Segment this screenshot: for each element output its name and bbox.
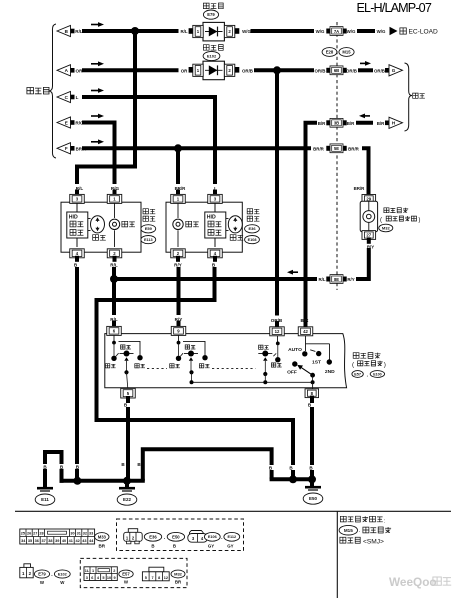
svg-text:L: L [76, 95, 79, 100]
oval E79 [34, 570, 49, 578]
dimmer switch group 3 [277, 336, 279, 343]
wire R/L vertical [77, 31, 135, 182]
svg-text:OR: OR [76, 68, 84, 73]
oval E59 [141, 225, 156, 233]
connector M32 grid [149, 567, 164, 572]
wire B from pin8 [310, 398, 314, 401]
label 下页 [413, 93, 418, 98]
svg-text:E57: E57 [122, 572, 130, 577]
node junction OR/B [273, 66, 281, 74]
label 远光 [186, 221, 192, 227]
label 超车 [199, 364, 203, 368]
svg-text:R/G: R/G [111, 186, 120, 191]
svg-text:2ND: 2ND [325, 369, 335, 375]
connector triangle B [57, 25, 71, 36]
low beam projector RH [88, 218, 91, 220]
svg-text:M33: M33 [98, 534, 107, 539]
wire OR/B [360, 68, 371, 72]
diode E79 [203, 22, 224, 41]
svg-text:5: 5 [145, 576, 147, 580]
diode E79 connector oval [203, 10, 218, 19]
pin 1 [189, 67, 194, 73]
svg-text:8: 8 [158, 576, 160, 580]
svg-text:B/R: B/R [318, 121, 326, 126]
oval M32 [379, 224, 393, 232]
svg-text:OR/B: OR/B [374, 68, 385, 73]
HID left headlamp E36 [166, 202, 242, 252]
svg-text:·: · [359, 529, 361, 535]
svg-text:BR/R: BR/R [348, 146, 360, 151]
svg-text:37: 37 [41, 539, 45, 543]
pin 1 [107, 194, 122, 203]
svg-text:R/Y: R/Y [175, 317, 183, 322]
pin 3 [70, 194, 85, 203]
arrow to EC-LOAD [390, 27, 398, 35]
pin 1 [189, 28, 194, 34]
connector triangle H to next page [385, 121, 389, 126]
svg-text:6B: 6B [334, 68, 339, 73]
svg-text:EL-H/LAMP-07: EL-H/LAMP-07 [357, 1, 432, 15]
HID control unit LH [214, 203, 216, 212]
svg-text:B/R: B/R [377, 121, 385, 126]
label 连接器（SMJ） [340, 537, 346, 543]
svg-text:5E: 5E [334, 146, 339, 151]
label 接前页 [27, 88, 34, 94]
svg-text:OR/B: OR/B [315, 68, 326, 73]
arrow [91, 24, 98, 26]
connector triangle E [57, 117, 71, 128]
svg-text:35: 35 [28, 539, 32, 543]
svg-text:W/G: W/G [377, 29, 386, 34]
connector 6B [326, 68, 333, 73]
svg-text:): ) [384, 361, 386, 368]
connector 8E [326, 277, 333, 282]
svg-text:HID: HID [69, 215, 78, 221]
label 至 EC-LOAD [400, 28, 406, 34]
wire R/G [84, 123, 115, 183]
svg-text:R/L: R/L [110, 317, 118, 322]
arrow [91, 141, 98, 143]
legend dashed box 2 [80, 558, 187, 587]
svg-text:E100: E100 [373, 372, 381, 376]
svg-text:E79: E79 [38, 572, 46, 577]
connector icon E36/E50 [128, 529, 137, 533]
svg-text:3B: 3B [334, 121, 339, 126]
label 近光 [105, 364, 109, 368]
label 近光 [230, 235, 236, 241]
wire BR/R [84, 146, 309, 150]
high beam bulb LH [177, 203, 179, 218]
oval E28 [322, 48, 337, 57]
label 超车 [271, 363, 275, 367]
pin 3 [208, 194, 223, 203]
label 参见以下内容 [340, 516, 346, 522]
svg-text:12: 12 [164, 576, 168, 580]
svg-text:B/R: B/R [347, 121, 355, 126]
svg-text:OR/B: OR/B [242, 68, 253, 73]
wire B left lamp ground [213, 258, 217, 260]
svg-text:E57: E57 [354, 372, 361, 376]
svg-text:E50: E50 [309, 496, 318, 501]
svg-text:10: 10 [107, 576, 111, 580]
oval E57 [352, 371, 363, 378]
svg-text:E102: E102 [58, 572, 67, 576]
svg-text:1L: 1L [85, 569, 90, 573]
svg-text:R/L: R/L [318, 277, 325, 282]
bracket from previous page [49, 24, 57, 158]
pin 4 [208, 249, 223, 258]
svg-text:GY: GY [208, 544, 214, 549]
label 右前大灯 [143, 209, 148, 214]
svg-text:E108: E108 [248, 238, 257, 242]
svg-text:AUTO: AUTO [288, 347, 302, 353]
bracket to next page [405, 63, 413, 131]
wire jog to E11 [60, 471, 64, 481]
connector 3B [326, 120, 333, 125]
connector triangle G to next page [385, 68, 389, 73]
pin 2 [107, 249, 122, 258]
svg-text:OR/B: OR/B [271, 318, 283, 323]
wire ground bridge [143, 449, 272, 479]
label 二极管 [203, 45, 209, 51]
pin 1 [171, 194, 186, 203]
pin 12 [270, 327, 285, 336]
oval E100 [370, 371, 384, 378]
label 近光 [259, 345, 263, 349]
svg-text:R/L: R/L [180, 29, 187, 34]
svg-text:43: 43 [82, 539, 86, 543]
pin 42 [298, 327, 313, 336]
pin 4 [70, 249, 85, 258]
wire W/G [359, 29, 373, 33]
svg-text:36: 36 [35, 539, 39, 543]
svg-text:7: 7 [151, 576, 153, 580]
wire B from pin5 [126, 398, 130, 401]
wire L [84, 97, 215, 182]
HID right headlamp E59 [61, 202, 141, 252]
svg-text:BR/R: BR/R [354, 186, 366, 191]
svg-text:E28: E28 [326, 50, 334, 55]
label 超车 [135, 364, 139, 368]
wire E22 stub [125, 481, 129, 487]
svg-text:12: 12 [275, 329, 280, 334]
HID control unit RH [76, 203, 78, 212]
svg-text:E11: E11 [41, 497, 49, 502]
separator line [15, 510, 451, 512]
wire OR/B [256, 68, 312, 72]
svg-text:W/G: W/G [316, 29, 325, 34]
svg-text:M15: M15 [342, 50, 351, 55]
pin 2 [171, 249, 186, 258]
diode E102 connector oval [203, 51, 220, 60]
svg-text:E113: E113 [144, 238, 153, 242]
node junction [123, 477, 131, 485]
svg-text:R/Y: R/Y [347, 277, 354, 282]
wire R/Y [367, 239, 371, 241]
oval E50 [167, 532, 184, 541]
svg-text:GY: GY [227, 544, 233, 549]
oval E108 [245, 236, 260, 244]
svg-text:<SMJ>: <SMJ> [363, 538, 384, 545]
svg-text:E36: E36 [149, 534, 157, 539]
svg-text:E50: E50 [172, 534, 180, 539]
svg-text:E79: E79 [207, 12, 215, 17]
lighting switch rotary [305, 336, 307, 351]
wire R/L [114, 277, 315, 281]
wire R/L to switch [113, 258, 117, 260]
oval M32 [171, 570, 185, 578]
svg-text:BR/R: BR/R [175, 186, 187, 191]
svg-text:28: 28 [39, 532, 43, 536]
label 左前大灯 [247, 209, 252, 214]
wire R/Y to switch [176, 258, 180, 260]
oval E113 [141, 236, 156, 244]
label 近光 [93, 235, 99, 241]
connector M33 grid [20, 529, 95, 544]
svg-text:42: 42 [303, 329, 308, 334]
arrow [360, 62, 365, 64]
svg-text:B: B [173, 544, 176, 549]
svg-text:E: E [65, 120, 68, 125]
arrow [91, 115, 98, 117]
oval E106 [204, 532, 220, 541]
oval E112 [224, 532, 240, 541]
svg-text:R/L: R/L [76, 186, 84, 191]
wire W/G [253, 29, 313, 33]
oval M33 [95, 533, 109, 541]
svg-text:31: 31 [77, 532, 81, 536]
pin 6 [107, 326, 122, 335]
combination switch E57 [105, 334, 347, 388]
svg-text:BR: BR [175, 579, 182, 584]
wire BR/R vertical [176, 148, 180, 182]
label 组合仪表 [384, 208, 389, 213]
connector triangle C [57, 91, 71, 102]
svg-text:B/R: B/R [301, 318, 310, 323]
svg-text:W/G: W/G [242, 29, 251, 34]
svg-text:7A: 7A [334, 29, 339, 34]
connector triangle A [57, 65, 71, 76]
dimmer switch group 1 [113, 335, 115, 342]
oval E102 [54, 570, 70, 578]
arrow [365, 115, 370, 117]
svg-text:EC-LOAD: EC-LOAD [409, 28, 439, 35]
svg-text:E36: E36 [248, 226, 256, 231]
wire BR/R [364, 148, 369, 195]
SMJ dashed line [336, 22, 338, 290]
svg-text:30: 30 [70, 532, 74, 536]
oval E36 [245, 225, 260, 233]
svg-text:B: B [151, 544, 154, 549]
node junction [289, 475, 297, 483]
svg-text:E22: E22 [123, 497, 132, 502]
connector triangle F [57, 143, 71, 154]
svg-text:R/L: R/L [110, 263, 118, 268]
svg-text:2: 2 [113, 569, 115, 573]
mechanical link dashed [147, 367, 167, 369]
wire ground bus right [272, 477, 312, 481]
high beam indicator bulb [363, 211, 375, 223]
pin 27 [362, 231, 376, 240]
wire ground bus left [62, 479, 143, 483]
svg-text:38: 38 [48, 539, 52, 543]
svg-text:W/G: W/G [347, 29, 356, 34]
svg-text:27: 27 [366, 233, 371, 238]
legend dashed box 1 [117, 519, 244, 551]
pin 5 [121, 388, 136, 398]
label 二极管 [203, 3, 209, 9]
wire R/L pin6 [112, 323, 116, 328]
high beam bulb RH [114, 203, 116, 218]
svg-text:WeeQoo: WeeQoo [389, 575, 437, 589]
svg-text:41: 41 [69, 539, 73, 543]
oval M15 [339, 48, 354, 57]
label 组合开关 [353, 353, 359, 359]
ground E50 [305, 486, 321, 489]
svg-text:E102: E102 [207, 53, 217, 58]
svg-text:E112: E112 [227, 535, 236, 539]
combination meter M32 [362, 195, 376, 204]
svg-text:26: 26 [27, 532, 31, 536]
connector icon E79/E102 [24, 564, 31, 568]
svg-text:5: 5 [102, 576, 104, 580]
node junction [308, 475, 316, 483]
node junction BR/R [174, 144, 182, 152]
oval E57 [119, 570, 133, 578]
svg-text:BR: BR [98, 543, 105, 548]
label 近光 [170, 364, 174, 368]
label 远光 [121, 345, 125, 349]
node junction [73, 477, 81, 485]
svg-text:27: 27 [33, 532, 37, 536]
arrow [91, 90, 98, 92]
svg-text:OR: OR [181, 68, 188, 73]
node junction R/L [131, 27, 139, 35]
svg-text:L: L [214, 186, 217, 191]
svg-text:OR/B: OR/B [346, 68, 357, 73]
wire OR/B to switch pin12 [275, 70, 279, 313]
pin 2 [224, 25, 234, 37]
arrow [91, 63, 98, 65]
svg-text:39: 39 [55, 539, 59, 543]
wire R/L [84, 29, 177, 33]
svg-text:): ) [418, 217, 420, 224]
diode E102 [203, 61, 224, 79]
svg-text:R/Y: R/Y [174, 263, 182, 268]
wire switch common bus [192, 381, 313, 383]
svg-text:8E: 8E [334, 277, 339, 282]
pin 2 [224, 64, 234, 76]
wire B/R [306, 123, 316, 327]
svg-text:6: 6 [91, 576, 93, 580]
connector 5E [326, 146, 333, 151]
svg-text:42: 42 [75, 539, 79, 543]
svg-text:9: 9 [113, 576, 115, 580]
svg-text:1: 1 [92, 569, 94, 573]
svg-text:40: 40 [62, 539, 66, 543]
wire E50 stub [310, 479, 314, 485]
connector 7A [326, 29, 333, 34]
svg-text:E59: E59 [145, 226, 153, 231]
svg-text:M32: M32 [382, 225, 391, 230]
arrow [293, 271, 298, 273]
connector icon E106/E112 [190, 531, 204, 535]
svg-text:1ST: 1ST [312, 360, 321, 366]
connector E57 grid [84, 567, 117, 581]
svg-text:HID: HID [207, 215, 216, 221]
pin 8 [305, 389, 319, 398]
label 远光 [185, 345, 189, 349]
wire OR [84, 68, 177, 72]
svg-text:F: F [65, 146, 68, 151]
svg-text:32: 32 [83, 532, 87, 536]
node junction R/L [110, 275, 118, 283]
svg-text:33: 33 [89, 532, 93, 536]
ground E22 [119, 487, 135, 490]
svg-text:R/L: R/L [75, 29, 83, 34]
svg-text:OFF: OFF [287, 370, 297, 376]
legend divider [336, 511, 338, 598]
svg-text:G: G [392, 68, 396, 73]
svg-text:3: 3 [86, 576, 88, 580]
svg-text:E106: E106 [208, 535, 217, 539]
pin 9 [171, 326, 186, 335]
wire B right lamp ground [75, 258, 79, 260]
low beam projector LH [226, 218, 229, 220]
ground E11 [37, 487, 53, 490]
oval M15 [339, 525, 357, 535]
svg-text:M15: M15 [344, 528, 353, 533]
label 远光 [122, 221, 128, 227]
svg-text:M32: M32 [174, 571, 183, 576]
svg-text:25: 25 [21, 532, 25, 536]
svg-text:BR/R: BR/R [313, 146, 325, 151]
wire B/R [358, 121, 371, 125]
oval E36 [144, 532, 161, 541]
dimmer switch group 2 [178, 335, 180, 342]
